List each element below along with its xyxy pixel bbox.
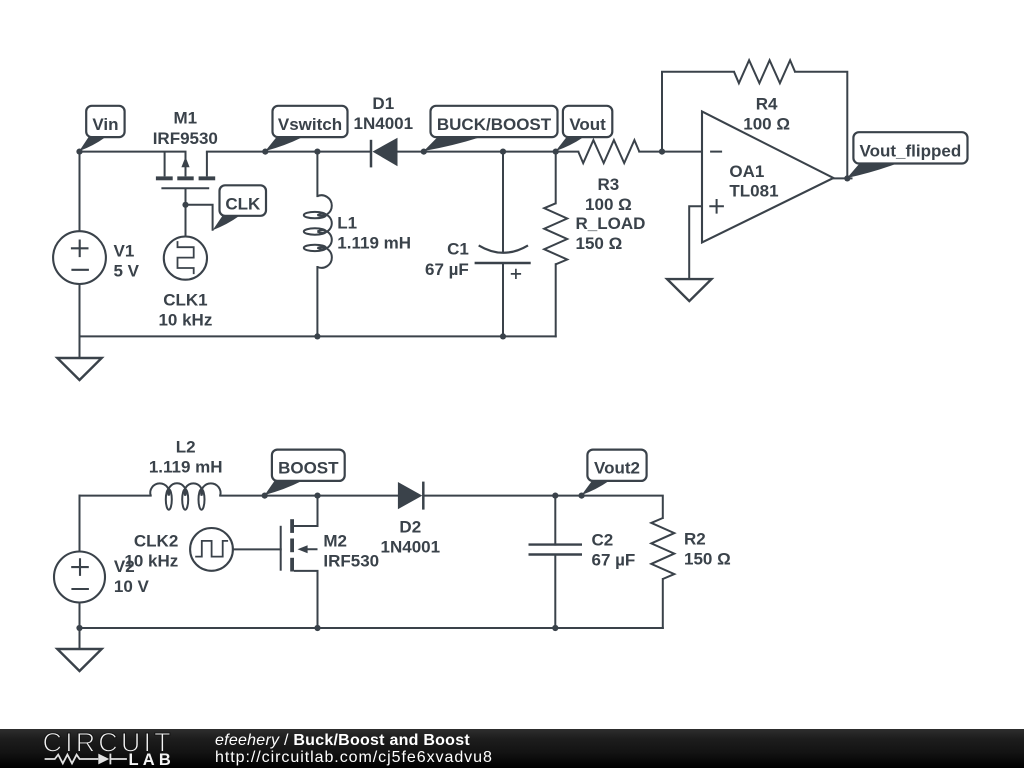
svg-text:5 V: 5 V: [114, 262, 140, 281]
node op-amp output: [844, 175, 850, 181]
inductor L2: [150, 483, 220, 495]
ground under V2: [57, 649, 101, 671]
svg-text:150 Ω: 150 Ω: [576, 234, 623, 253]
clock source CLK1: [164, 237, 207, 280]
wire V2 to L2: [80, 495, 151, 497]
svg-text:Vin: Vin: [92, 115, 118, 134]
svg-text:IRF9530: IRF9530: [153, 129, 218, 148]
svg-text:D1: D1: [372, 94, 394, 113]
svg-text:C2: C2: [592, 530, 614, 549]
svg-text:C1: C1: [447, 240, 469, 259]
svg-text:CLK: CLK: [225, 194, 261, 213]
voltage source V1: [53, 231, 106, 284]
footer bar: [0, 729, 1024, 768]
capacitor C1 67uF: [479, 245, 528, 252]
ground at op-amp plus input: [667, 279, 711, 301]
svg-text:100 Ω: 100 Ω: [585, 195, 632, 214]
svg-text:R_LOAD: R_LOAD: [576, 214, 646, 233]
node Vout junction: [553, 149, 559, 155]
node C1 bottom: [500, 333, 506, 339]
wire R3 to op-amp inverting input: [639, 151, 702, 153]
wire feedback up from inverting node: [662, 72, 734, 152]
node C1 top: [500, 149, 506, 155]
svg-text:LAB: LAB: [129, 751, 176, 768]
flag BUCK/BOOST: [424, 137, 481, 151]
svg-text:1N4001: 1N4001: [354, 114, 414, 133]
node L1 top: [314, 149, 320, 155]
voltage source V2: [54, 552, 105, 603]
wire V2 bottom lead: [79, 602, 81, 628]
wire op-amp output stub: [833, 177, 851, 179]
svg-text:67 µF: 67 µF: [425, 260, 469, 279]
flag Vin: [79, 137, 105, 151]
svg-text:100 Ω: 100 Ω: [743, 115, 790, 134]
wire ground stub under V2: [79, 628, 81, 649]
wire gate junction to CLK flag: [186, 205, 213, 230]
svg-text:OA1: OA1: [729, 162, 764, 181]
svg-text:D2: D2: [399, 518, 421, 537]
flag Vout: [556, 137, 584, 151]
node M2 source junction: [314, 625, 320, 631]
svg-text:L1: L1: [337, 213, 357, 232]
wire L1 top lead: [316, 152, 318, 197]
node R3 to feedback junction: [659, 149, 665, 155]
wire Vin rail to M1 source: [80, 151, 186, 153]
svg-text:BUCK/BOOST: BUCK/BOOST: [437, 115, 552, 134]
wire bottom rail of boost circuit: [80, 627, 663, 629]
svg-text:M2: M2: [323, 531, 347, 550]
resistor R3 100: [578, 140, 639, 163]
node Vout2 junction: [579, 493, 585, 499]
svg-text:IRF530: IRF530: [323, 551, 379, 570]
svg-text:R3: R3: [598, 175, 620, 194]
transistor M1 PMOS IRF9530: [165, 152, 207, 177]
node BOOST junction: [262, 493, 268, 499]
wire R_LOAD bottom lead: [555, 264, 557, 336]
CircuitLab logo squiggle resistor and diode: [45, 755, 99, 764]
resistor R2 150: [651, 518, 674, 579]
svg-text:M1: M1: [173, 109, 197, 128]
svg-text:Vout2: Vout2: [594, 459, 640, 478]
wire D1 anode to R3: [398, 151, 579, 153]
svg-text:1.119 mH: 1.119 mH: [337, 234, 411, 253]
svg-text:10 kHz: 10 kHz: [124, 552, 178, 571]
svg-text:R2: R2: [684, 529, 706, 548]
flag BOOST: [265, 481, 302, 495]
node Vswitch junction: [262, 149, 268, 155]
flag CLK: [213, 216, 240, 230]
node M1 gate junction: [182, 202, 188, 208]
wire R4 to output: [795, 72, 847, 179]
svg-text:67 µF: 67 µF: [592, 551, 636, 570]
svg-text:CLK1: CLK1: [163, 290, 207, 309]
svg-text:efeehery / Buck/Boost and Boos: efeehery / Buck/Boost and Boost: [215, 732, 470, 749]
svg-text:CLK2: CLK2: [134, 532, 178, 551]
wire bottom rail of buck circuit: [80, 335, 556, 337]
svg-text:Vout_flipped: Vout_flipped: [860, 141, 962, 160]
diode D2 1N4001: [398, 482, 422, 509]
svg-text:150 Ω: 150 Ω: [684, 549, 731, 568]
node BUCK/BOOST junction: [421, 149, 427, 155]
svg-text:10 kHz: 10 kHz: [158, 311, 212, 330]
wire C2 top lead: [554, 496, 556, 545]
svg-text:R4: R4: [756, 95, 778, 114]
wire V1 bottom lead: [79, 284, 81, 337]
op-amp OA1 TL081: [702, 112, 833, 243]
svg-text:L2: L2: [176, 437, 196, 456]
wire V1 top lead: [79, 152, 81, 232]
svg-text:1.119 mH: 1.119 mH: [149, 457, 223, 476]
wire C1 bottom lead: [502, 263, 504, 336]
resistor R_LOAD 150: [544, 203, 567, 264]
wire R_LOAD top lead: [555, 152, 557, 204]
wire ground stub under V1: [79, 336, 81, 358]
svg-text:BOOST: BOOST: [278, 459, 339, 478]
wire V2 top lead: [79, 496, 81, 552]
node ground junction V2: [76, 625, 82, 631]
node C2 bottom: [552, 625, 558, 631]
flag Vout_flipped: [847, 164, 897, 179]
capacitor C2 67uF: [529, 543, 583, 545]
node Vin junction: [76, 149, 82, 155]
svg-text:Vswitch: Vswitch: [278, 115, 342, 134]
svg-text:http://circuitlab.com/cj5fe6xv: http://circuitlab.com/cj5fe6xvadvu8: [215, 749, 493, 766]
flag Vout2: [582, 481, 609, 495]
wire D2 to R2 corner: [423, 496, 663, 518]
wire M1 drain to D1 cathode: [207, 151, 371, 153]
wire C2 bottom lead: [554, 555, 556, 629]
diode D1 1N4001: [370, 140, 373, 168]
svg-text:10 V: 10 V: [114, 577, 150, 596]
svg-text:Vout: Vout: [569, 115, 606, 134]
flag Vswitch: [265, 137, 302, 151]
wire R2 bottom lead: [662, 579, 664, 628]
node M2 drain junction: [314, 493, 320, 499]
clock source CLK2: [190, 528, 233, 571]
svg-text:TL081: TL081: [729, 182, 778, 201]
wire L1 bottom lead: [316, 267, 318, 336]
node C2 top: [552, 493, 558, 499]
node L1 bottom: [314, 333, 320, 339]
wire CLK2 to M2 gate: [233, 548, 281, 550]
wire non-inverting input to ground: [689, 206, 702, 279]
wire C1 top lead: [502, 152, 504, 252]
resistor R4 100: [734, 60, 795, 83]
transistor M2 NMOS IRF530: [280, 526, 282, 571]
svg-text:1N4001: 1N4001: [381, 538, 441, 557]
inductor L1: [317, 195, 331, 268]
ground under V1: [57, 358, 101, 380]
wire L2 to D2: [220, 495, 398, 497]
svg-text:V1: V1: [114, 242, 135, 261]
